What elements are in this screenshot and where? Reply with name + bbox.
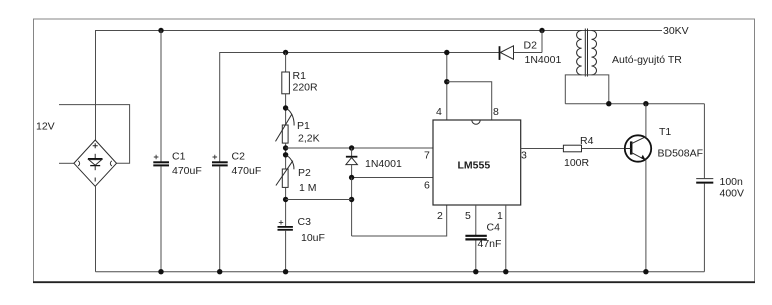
node: emitter bottom: [643, 269, 648, 274]
bridge + mark: [93, 143, 98, 148]
wire: output cap branch: [703, 104, 705, 179]
wire: node vertical to pin2 route: [351, 178, 353, 237]
svg-text:7: 7: [424, 150, 430, 162]
svg-text:100R: 100R: [564, 157, 590, 169]
svg-text:C2: C2: [232, 151, 246, 163]
node: P2 bottom junction: [283, 197, 288, 202]
svg-text:1 M: 1 M: [299, 182, 317, 194]
node: R1 top junction: [283, 50, 288, 55]
svg-text:BD508AF: BD508AF: [658, 148, 704, 160]
svg-text:4: 4: [436, 106, 442, 118]
svg-text:C3: C3: [298, 216, 312, 228]
wire: under winding connections: [565, 75, 609, 104]
svg-text:47nF: 47nF: [478, 238, 502, 250]
resistor R4: [521, 148, 564, 150]
capacitor C1: [153, 161, 169, 163]
wire: P2 bottom lead: [285, 187, 287, 226]
wire: pin 7 line: [286, 147, 433, 149]
svg-text:1: 1: [497, 210, 503, 222]
capacitor C5 100n 400V: [696, 178, 713, 180]
potentiometer P1: [282, 125, 288, 143]
node: winding bottom junction: [606, 101, 611, 106]
svg-text:2: 2: [437, 210, 443, 222]
svg-text:12V: 12V: [36, 121, 55, 133]
diode D1 1N4001: [346, 148, 358, 178]
wire: C2 branch lower: [219, 166, 221, 271]
svg-text:D2: D2: [524, 40, 538, 52]
wire: cap to bottom rail: [703, 184, 705, 272]
bridge - mark: [94, 178, 96, 182]
bridge ~ mark right: [110, 161, 112, 166]
wire: C1 branch lower: [160, 166, 162, 271]
node: collector junction: [643, 101, 648, 106]
svg-text:6: 6: [424, 180, 430, 192]
notch: [472, 120, 480, 124]
transformer TR windings: [577, 29, 597, 77]
node: D2 branch junction on top rail: [539, 28, 544, 33]
capacitor C3: [278, 226, 293, 228]
svg-text:2,2K: 2,2K: [298, 133, 320, 145]
wire: collector line: [565, 103, 704, 105]
wire: bridge bottom to ground rail: [95, 186, 97, 271]
svg-text:8: 8: [493, 106, 499, 118]
svg-text:Autó-gyujtó TR: Autó-gyujtó TR: [612, 54, 682, 66]
wire: pin 2 route: [352, 205, 447, 236]
svg-text:30KV: 30KV: [663, 25, 689, 37]
bridge rectifier B1 diamond: [74, 140, 117, 186]
wire: P2 bottom to node: [286, 199, 352, 201]
wire: 12V upper input line to bridge right corner: [59, 105, 130, 164]
node: R1/P1 junction: [283, 105, 288, 110]
node: pin1 bottom: [503, 269, 508, 274]
primary winding left: [577, 31, 582, 75]
node: C1 top junction: [158, 28, 163, 33]
wire: pin 8 branch: [447, 82, 492, 120]
node: C2 bottom: [217, 269, 222, 274]
core lines: [584, 29, 586, 77]
svg-text:470uF: 470uF: [172, 165, 202, 177]
svg-text:R1: R1: [293, 70, 307, 82]
wire: pin 5 vertical: [475, 205, 477, 235]
svg-text:1N4001: 1N4001: [365, 158, 402, 170]
wire: C3 bottom lead: [285, 231, 287, 272]
node: D1 top junction: [349, 145, 354, 150]
wire: pin 4 vertical: [446, 53, 448, 121]
wire: 12V lower stub to bridge left corner: [59, 162, 74, 164]
svg-text:470uF: 470uF: [232, 165, 262, 177]
svg-text:3: 3: [521, 150, 527, 162]
wire: R1 top lead: [285, 53, 287, 73]
wire: bottom ground rail: [96, 271, 705, 273]
potentiometer P2: [282, 169, 288, 187]
wire: P1 bottom lead: [285, 143, 287, 169]
svg-text:C1: C1: [172, 151, 186, 163]
svg-text:10uF: 10uF: [301, 232, 325, 244]
wire: C4 bottom lead: [475, 241, 477, 272]
node: C4 bottom: [473, 269, 478, 274]
svg-text:100n: 100n: [720, 176, 744, 188]
node: C1 bottom: [158, 269, 163, 274]
diode D2 1N4001: [500, 31, 543, 60]
svg-text:P1: P1: [297, 120, 310, 132]
svg-text:R4: R4: [580, 135, 594, 147]
svg-text:LM555: LM555: [458, 160, 491, 172]
wire: R1 bottom lead: [285, 94, 287, 125]
node: pin4/pin8 split junction: [444, 79, 449, 84]
resistor R1: [282, 72, 290, 94]
svg-text:5: 5: [465, 210, 471, 222]
wire: pin 6 line: [352, 177, 433, 179]
wire: left vertical + top supply rail to 30KV: [96, 31, 663, 141]
svg-text:T1: T1: [659, 126, 671, 138]
node: P1 bottom / pin7 wire junction: [283, 145, 288, 150]
svg-text:400V: 400V: [720, 188, 745, 200]
wire: second rail from C2 top to D2: [220, 53, 500, 162]
svg-text:1N4001: 1N4001: [525, 54, 562, 66]
wire: pin 1 vertical: [505, 205, 507, 272]
node: P2 line junction: [349, 197, 354, 202]
wire: C1 branch upper: [160, 31, 162, 162]
svg-text:C4: C4: [487, 222, 501, 234]
op-amp timer U1 LM555 box: [433, 120, 521, 205]
transistor Q1 T1 BD508AF: [625, 104, 651, 272]
node: rail/pin4 junction: [444, 50, 449, 55]
capacitor C2: [212, 161, 228, 163]
svg-text:P2: P2: [298, 167, 311, 179]
bridge internal diode: [88, 154, 103, 170]
node: P2 top junction: [283, 152, 288, 157]
bridge ~ mark left: [78, 161, 80, 166]
svg-text:220R: 220R: [293, 82, 319, 94]
node: C3 bottom: [283, 269, 288, 274]
secondary winding right: [592, 31, 597, 75]
node: D1 bottom junction: [349, 175, 354, 180]
capacitor C4: [465, 235, 486, 237]
